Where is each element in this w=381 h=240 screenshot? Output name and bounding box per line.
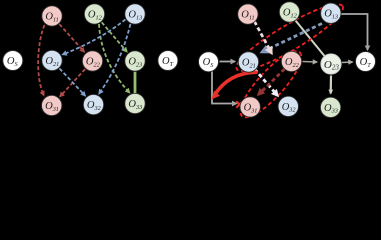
wire edge O12-O33 green curved skip — [99, 24, 130, 93]
wire dark red dashed arrow O22-O31 — [259, 69, 285, 95]
wire gray elbow OS-O31 — [212, 71, 237, 104]
wire edge O12-O23 green dashed — [102, 22, 127, 51]
node O22 right — [281, 51, 301, 71]
node O12 left — [84, 4, 104, 24]
node O32 right — [278, 96, 298, 116]
node O13 left — [125, 4, 145, 24]
wire gray arrow O22-O23 — [303, 61, 318, 64]
node O11 left — [42, 6, 62, 26]
node O32 left — [83, 94, 103, 114]
node OT left — [158, 51, 178, 71]
red comet arrowhead — [212, 91, 221, 100]
wire edge O22-O31 red dashed — [60, 69, 85, 96]
node O23 left — [125, 51, 145, 71]
node O21 right — [238, 52, 258, 72]
wire gray arrow OS-O21 — [220, 61, 236, 63]
wire pale arrow O23-OT — [342, 61, 353, 64]
node O33 left — [125, 93, 145, 113]
wire edge O13-O32 blue curved skip — [99, 24, 130, 94]
wire edge O23-O33 green vertical — [134, 72, 137, 95]
wire edge O11-O22 red dashed — [59, 24, 84, 52]
node O23 right ghost — [321, 54, 341, 74]
red X over OS-O31 arrowhead — [236, 101, 242, 107]
red comet arrow — [215, 72, 257, 95]
capsule ellipse around O21 and O13 red dashed — [230, 0, 349, 80]
node OT right — [356, 52, 376, 72]
node O31 right — [240, 97, 260, 117]
wire pale green arrow O23-O33 — [330, 76, 332, 94]
node O33 right — [320, 97, 340, 117]
wire edge O21-O32 blue dashed — [60, 69, 86, 96]
wire white dashed arrow O21-O32 — [255, 69, 278, 96]
node O21 left — [42, 50, 62, 70]
node O12 right — [279, 2, 299, 22]
node O13 right — [321, 3, 341, 23]
wire gray elbow O13-OT — [341, 14, 368, 50]
node O31 left — [42, 95, 62, 115]
wire edge O11-O31 red curved skip — [38, 25, 44, 95]
node O11 right — [238, 4, 258, 24]
wire edge O13-O21 blue dashed — [63, 19, 126, 54]
wire blue-gray dashed arrow O13-O21 — [262, 24, 322, 53]
wire white-pink dashed arrow O11-O22 — [255, 22, 272, 54]
capsule ellipse around O22 and O31 red dashed — [232, 44, 309, 125]
node OS right — [199, 52, 219, 72]
node OS left — [3, 51, 23, 71]
node O22 left — [82, 51, 102, 71]
wire ghost line O12-O23 — [296, 21, 325, 57]
